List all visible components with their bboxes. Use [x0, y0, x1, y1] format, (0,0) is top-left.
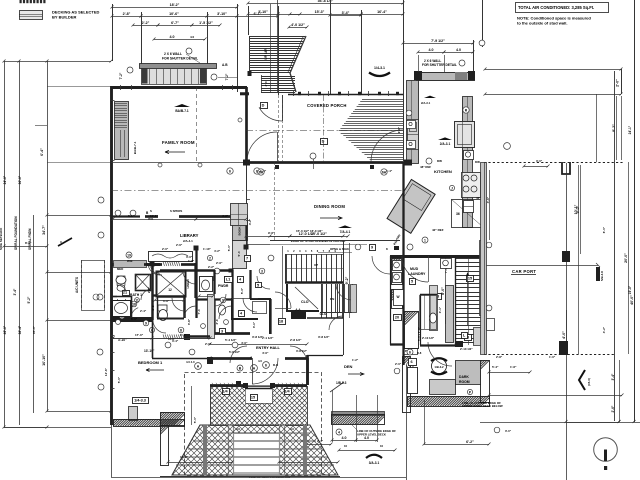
entry stair stringer [288, 36, 306, 92]
entry stair treads [249, 37, 305, 93]
room label DARK ROOM [459, 375, 470, 384]
mud door arc1 [402, 256, 429, 282]
svg-text:2'-6": 2'-6" [176, 243, 183, 247]
bath wall extra [111, 296, 132, 318]
svg-text:3'-0": 3'-0" [536, 159, 543, 163]
svg-text:UPPER LEVEL DECK BELOW: UPPER LEVEL DECK BELOW [462, 404, 503, 408]
svg-text:4: 4 [338, 430, 340, 434]
core dim lines3 [118, 295, 215, 317]
ext line e [248, 6, 250, 35]
note text [517, 16, 591, 26]
svg-text:3'-1": 3'-1" [438, 306, 442, 313]
mud center band [430, 286, 438, 331]
hatch strip right v [438, 360, 490, 403]
entry stair wall [240, 92, 249, 95]
carport marker 5/8 [596, 267, 604, 281]
bath toilet 2 [158, 305, 168, 321]
svg-text:CLO: CLO [301, 300, 309, 304]
family south beam [111, 162, 246, 164]
kitchen east band [463, 96, 473, 228]
kitchen extra fixtures [463, 151, 474, 213]
covered porch label [307, 103, 347, 108]
svg-text:MUD: MUD [410, 267, 419, 271]
svg-text:40'-0": 40'-0" [630, 295, 634, 305]
entry dims2 [229, 336, 308, 354]
porch wall caps [243, 160, 412, 166]
br dim rot1 [611, 373, 615, 380]
backstair dim [441, 258, 446, 324]
mud west wall2 [390, 256, 392, 345]
svg-text:S: S [150, 209, 152, 213]
legend decking swatch [19, 11, 43, 20]
dining dim [289, 232, 350, 238]
svg-text:5: 5 [411, 280, 413, 284]
svg-text:16'-0 1/2": 16'-0 1/2" [310, 229, 323, 233]
right dim h2 [484, 93, 623, 96]
svg-text:DW: DW [437, 159, 442, 163]
svg-text:TOTAL AIR CONDITIONED: 3,285 S: TOTAL AIR CONDITIONED: 3,285 Sq.Ft. [518, 5, 594, 10]
bedroom dims right [104, 367, 108, 376]
right rot dim extra2 [628, 125, 632, 294]
foundation note [249, 470, 330, 479]
hatch band den [321, 412, 386, 425]
svg-text:15: 15 [468, 277, 472, 281]
svg-text:1'-0": 1'-0" [549, 355, 556, 359]
kitchen small boxes [407, 121, 416, 149]
svg-text:DW: DW [475, 160, 480, 164]
svg-text:D.B: D.B [273, 363, 279, 367]
porch south posts [275, 165, 374, 169]
bedroom south dim [112, 333, 212, 340]
left v line 4 [47, 61, 49, 411]
den upper arcs [329, 316, 343, 330]
svg-text:3'-10": 3'-10" [217, 12, 227, 16]
family ceiling mark [174, 104, 190, 113]
svg-text:4.0: 4.0 [190, 35, 195, 39]
deck more posts [203, 425, 307, 475]
porch door marker d1 [261, 103, 268, 109]
ext line d [237, 4, 239, 92]
deck markers ab [186, 359, 262, 371]
section marker 1/4-3.1 top [369, 66, 390, 76]
svg-text:6'-8": 6'-8" [163, 299, 170, 303]
svg-text:4.0: 4.0 [364, 436, 369, 440]
stair open wall [270, 240, 400, 242]
library east wall [245, 215, 247, 247]
porch bottom dims [260, 169, 393, 173]
carport west gray band [481, 163, 487, 355]
top dim row3 [132, 21, 222, 27]
room label PWDR [218, 284, 229, 288]
back stair treads [455, 259, 482, 343]
kitchen top dim [402, 39, 475, 54]
dining more dims [245, 229, 310, 238]
hall closet walls [250, 299, 270, 334]
svg-text:3'-4": 3'-4" [342, 11, 350, 15]
bedroom arrow [146, 369, 164, 372]
svg-text:7'-0: 7'-0 [197, 309, 201, 314]
svg-text:6'-2": 6'-2" [466, 440, 474, 444]
svg-text:ENTRY HALL: ENTRY HALL [256, 346, 281, 350]
west stairs treads [320, 284, 353, 313]
svg-text:9'-6": 9'-6" [268, 231, 275, 235]
darkroom gray [430, 380, 456, 395]
ac dashes [82, 260, 105, 310]
room label MUD LAUNDRY [408, 267, 426, 276]
ext line k [479, 0, 485, 47]
svg-text:3'-0: 3'-0 [215, 319, 219, 324]
library north wall [145, 215, 248, 218]
porch north ticks [294, 91, 389, 96]
svg-text:2'-10 1/2": 2'-10 1/2" [422, 336, 435, 340]
deck marker 15 [251, 395, 258, 401]
hall small box [355, 244, 375, 250]
svg-text:4.0: 4.0 [258, 359, 262, 363]
kitchen ceiling mark [438, 137, 452, 146]
svg-text:4.0: 4.0 [170, 35, 175, 39]
back stair marker 15 [467, 276, 474, 282]
deck door landing [245, 386, 273, 404]
core top dims [216, 244, 231, 265]
right ext v2 [634, 0, 636, 422]
mud marker 13 [435, 294, 442, 300]
carport col black1 [562, 251, 570, 262]
west stairs label [318, 247, 352, 253]
mud north wall [390, 255, 485, 258]
porch nw door arc [259, 95, 283, 121]
bath sink ovals [116, 276, 126, 291]
svg-text:3'-1": 3'-1" [252, 321, 256, 328]
shower label 12 [168, 288, 172, 292]
svg-text:D.8: D.8 [417, 351, 422, 355]
backstair L box [462, 333, 468, 339]
svg-text:34'-7": 34'-7" [42, 225, 46, 235]
family markers [227, 168, 260, 174]
svg-text:6: 6 [265, 363, 267, 367]
svg-text:4.0: 4.0 [342, 436, 347, 440]
family arrow [165, 150, 185, 153]
laundry stair wall band [446, 286, 454, 343]
library closet shelf [149, 252, 193, 262]
svg-text:5'-0": 5'-0" [227, 244, 231, 251]
carport dim 4-0 [562, 310, 567, 354]
main stair treads [285, 249, 343, 282]
entry door arc big [252, 358, 278, 384]
stoop deck [142, 69, 207, 85]
room label BEDROOM 1 [138, 360, 163, 365]
svg-text:3/A-3.1: 3/A-3.1 [369, 461, 380, 465]
svg-text:LIBRARY: LIBRARY [180, 233, 199, 238]
svg-text:1'-5 1/2": 1'-5 1/2" [199, 21, 213, 25]
svg-text:2'-0": 2'-0" [216, 261, 223, 265]
kitchen ext lines [419, 55, 445, 72]
svg-text:4'-0": 4'-0" [241, 341, 248, 345]
svg-text:ROOM: ROOM [459, 380, 470, 384]
svg-text:2'-4": 2'-4" [317, 439, 324, 443]
svg-text:5: 5 [257, 284, 259, 288]
bath dims [112, 337, 155, 354]
svg-text:SPIRAL FOUNDATION: SPIRAL FOUNDATION [14, 216, 18, 250]
svg-text:19: 19 [127, 253, 131, 257]
stoop post left [142, 69, 148, 84]
svg-text:9: 9 [145, 321, 147, 325]
carport inner dim [574, 165, 579, 354]
stair room walls [287, 284, 319, 311]
svg-text:LINE OF SELF FOUNDATION: LINE OF SELF FOUNDATION [249, 475, 290, 479]
svg-text:3'-10": 3'-10" [258, 10, 268, 14]
svg-text:KITCHEN: KITCHEN [434, 169, 452, 174]
left h dim 411 [46, 410, 113, 413]
svg-text:36: 36 [456, 212, 460, 216]
svg-text:LINEN: LINEN [186, 280, 190, 289]
dining label 42 [248, 218, 252, 225]
svg-text:4'-2": 4'-2" [248, 218, 252, 225]
svg-text:A/C UNITS: A/C UNITS [75, 277, 79, 293]
svg-text:2/A-4.1: 2/A-4.1 [183, 239, 193, 243]
carport south dotted [484, 354, 614, 356]
stair right wall [343, 240, 345, 318]
carport dims small [496, 355, 556, 359]
family window marks [111, 101, 115, 161]
svg-text:SIDE SETBACK: SIDE SETBACK [0, 227, 3, 250]
fireplace label [133, 141, 137, 154]
svg-text:W: W [396, 295, 399, 299]
svg-text:6'-7": 6'-7" [171, 21, 179, 25]
svg-text:2'-8": 2'-8" [147, 286, 151, 293]
mud toilet [429, 313, 436, 323]
right dim h1 [484, 68, 623, 71]
svg-text:1/4: 1/4 [222, 390, 228, 394]
bottom h line [111, 477, 406, 479]
porch side fixtures [486, 305, 494, 330]
south wall hatch [210, 383, 304, 388]
svg-text:BEDROOM 1: BEDROOM 1 [138, 360, 163, 365]
left h dim 320 [46, 319, 115, 322]
br dim h1 [488, 394, 624, 397]
room label DEN [344, 364, 353, 369]
fireplace [114, 102, 129, 160]
family door arc [247, 132, 278, 162]
left h dim 272 [46, 271, 113, 274]
room label KITCHEN [434, 169, 452, 174]
section cut marker [58, 238, 72, 246]
darkroom marker [467, 389, 472, 394]
svg-text:4.0: 4.0 [290, 427, 294, 431]
left rot text 2 [28, 228, 32, 250]
entry small marks [236, 365, 243, 385]
hatch band left2 [147, 412, 186, 426]
left h dim top [3, 60, 113, 63]
ext line f [278, 6, 280, 95]
svg-text:L1: L1 [226, 278, 230, 282]
svg-text:BA/B-7.1: BA/B-7.1 [175, 109, 189, 113]
ext line i [330, 0, 332, 95]
pwdr more text [162, 247, 221, 259]
svg-text:2'-4": 2'-4" [140, 309, 147, 313]
svg-text:4.0 4.0: 4.0 4.0 [186, 360, 195, 364]
porch decking stripes [339, 100, 403, 160]
left rot dim 16 [42, 354, 46, 366]
room label CLO [301, 300, 309, 304]
stair door arc [275, 292, 291, 309]
carport extra dim [523, 159, 550, 168]
center v line [406, 365, 408, 480]
linen shower X [156, 271, 186, 297]
right dim 8-2 [612, 96, 617, 160]
mud pantry strip2 [372, 289, 403, 309]
mud more walls [420, 255, 456, 345]
kitchen more labels [406, 96, 469, 116]
mud marker 20 [394, 315, 402, 321]
carport col line [566, 163, 568, 480]
top dim row2 [111, 12, 280, 18]
total area box [516, 3, 609, 13]
laundry tub [441, 259, 452, 269]
br dim rot2 [611, 405, 615, 412]
svg-text:20: 20 [395, 316, 399, 320]
svg-text:DINING ROOM: DINING ROOM [314, 204, 345, 209]
room label LIBRARY [180, 233, 199, 243]
svg-text:2'-8": 2'-8" [123, 12, 131, 16]
svg-text:15'-3": 15'-3" [315, 10, 325, 14]
svg-text:7'-2": 7'-2" [119, 72, 123, 79]
hall wall v2 [231, 270, 233, 334]
mud black box [408, 359, 418, 394]
more left rot labels [0, 175, 22, 250]
svg-text:8'-0": 8'-0" [441, 287, 445, 295]
center v line2 [424, 400, 426, 444]
kitchen markers2 [504, 143, 511, 150]
entry markers extra [407, 349, 422, 355]
mud west wall [402, 162, 404, 365]
svg-text:2'-8": 2'-8" [496, 355, 503, 359]
svg-text:1/4-3.3: 1/4-3.3 [134, 399, 146, 403]
svg-text:2'-10 1/2": 2'-10 1/2" [460, 347, 473, 351]
svg-text:4.0: 4.0 [236, 427, 240, 431]
kitchen shutter note [422, 59, 465, 67]
dining arrow [320, 216, 342, 219]
svg-text:UP 18R: UP 18R [264, 48, 268, 60]
svg-text:5'-4": 5'-4" [492, 365, 499, 369]
right dim 20-0 [624, 162, 629, 354]
svg-text:10: 10 [380, 444, 384, 448]
deck dashed outline [185, 373, 322, 476]
deck crosshatch [110, 386, 444, 426]
legend text [52, 10, 100, 20]
svg-text:6'-1": 6'-1" [180, 333, 187, 337]
svg-text:6: 6 [410, 360, 412, 364]
svg-text:5'-0: 5'-0 [237, 251, 241, 256]
bath south wall [111, 317, 152, 320]
darkroom gray2 [456, 361, 481, 385]
dining col dash [274, 162, 276, 241]
svg-text:2'-8: 2'-8 [151, 305, 155, 310]
kitchen fridge [455, 122, 475, 148]
deck step dim marks [236, 427, 294, 431]
svg-text:5/B-3.8: 5/B-3.8 [600, 271, 604, 281]
porch circ marker [310, 153, 316, 169]
svg-text:D: D [322, 140, 325, 144]
core south wall [210, 384, 307, 387]
bedroom marker box [133, 398, 149, 404]
core extra walls [111, 270, 271, 334]
top dim small [288, 23, 309, 29]
left h dim 215 [46, 214, 113, 217]
svg-text:17'-0": 17'-0" [135, 333, 144, 337]
svg-text:38'-4": 38'-4" [18, 325, 22, 334]
core extra markers2 [149, 255, 274, 355]
room label DINING ROOM [314, 204, 345, 209]
ext line a [112, 4, 114, 61]
entry stair rails [248, 0, 278, 92]
room label ENTRY HALL [256, 346, 281, 355]
back stair gray [474, 328, 483, 346]
svg-text:16'-4": 16'-4" [377, 10, 387, 14]
family north ticks [121, 85, 233, 90]
svg-text:21: 21 [123, 291, 127, 295]
top dim row2b [247, 10, 405, 16]
section marker right [579, 370, 591, 390]
svg-text:2'-0": 2'-0" [395, 362, 402, 366]
backstair arrow line [466, 272, 469, 326]
svg-text:15: 15 [251, 396, 255, 400]
family dim y219 extra [128, 214, 229, 218]
svg-text:1: 1 [424, 238, 426, 242]
linen room [186, 263, 196, 298]
svg-text:CLO: CLO [168, 337, 175, 341]
svg-text:3'-4": 3'-4" [611, 373, 615, 380]
lib dim [176, 243, 211, 251]
svg-text:2'-8 1/2": 2'-8 1/2" [290, 338, 302, 342]
svg-text:48" REF: 48" REF [420, 165, 431, 169]
bath wall mid [151, 263, 154, 320]
deck steps [172, 425, 338, 475]
carport dim v [576, 165, 581, 254]
dining west wall [246, 162, 248, 243]
svg-text:35'-0": 35'-0" [32, 325, 36, 334]
den more walls [308, 318, 344, 385]
porch col dashes [279, 95, 283, 162]
dining extra dims [246, 229, 323, 245]
family mid dims [112, 214, 248, 221]
svg-text:9'-2": 9'-2" [345, 276, 349, 284]
bed clo text [152, 337, 210, 341]
porch south wall [246, 161, 412, 164]
left mid h dims [3, 241, 49, 248]
svg-text:1/4: 1/4 [284, 390, 290, 394]
deck steps hatch [112, 425, 396, 475]
stair top dims [269, 232, 345, 238]
mud stair label [417, 326, 421, 341]
core rot dims [151, 305, 219, 324]
mud stair hatch [367, 311, 419, 349]
kitchen dim marks [397, 126, 431, 169]
main stair base [285, 281, 343, 284]
svg-text:18'-2": 18'-2" [170, 3, 180, 7]
svg-text:30'-0": 30'-0" [18, 175, 22, 184]
right ext v1 [616, 69, 622, 94]
svg-text:BY BUILDER: BY BUILDER [52, 15, 76, 20]
core door arcs2 [151, 267, 257, 319]
back stair marker 13 [465, 335, 472, 341]
kitchen galley counter lines [419, 82, 463, 227]
bath tub [113, 301, 131, 317]
library south wall [144, 262, 196, 267]
left rot dim 34 [42, 225, 46, 235]
svg-text:to the outside of stud wall.: to the outside of stud wall. [517, 21, 567, 26]
left rot text 1 [14, 216, 18, 250]
mud marker 5 [410, 279, 416, 285]
